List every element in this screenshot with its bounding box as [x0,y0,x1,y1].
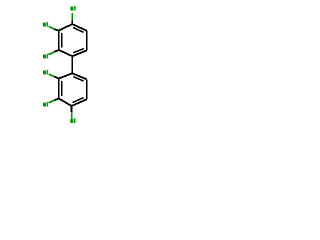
Cl label C [43,54,48,59]
bond W2-ClD black half [54,77,58,79]
Cl label D [43,70,48,75]
double bond V4-V5 [72,49,86,57]
bond W4-ClF green half [71,112,73,119]
double bond W6-W1 [72,73,86,81]
bond W3-ClE black half [54,98,58,100]
bond W3-W4 [59,98,72,106]
double bond W2-W3 [59,79,62,99]
bond V5-V6 [86,31,88,51]
Cl label E [43,102,48,107]
bond V3-V4 [59,50,73,56]
bond W1-W2 [59,73,73,78]
Cl label B [43,22,48,27]
bond V3-ClC black half [54,50,58,52]
bond V1-V2 [59,24,73,30]
bond W4-ClF black half [71,106,73,112]
biphenyl single bond C1-C1p [71,56,73,73]
bond W3-ClE green half [49,100,55,102]
double bond W4-W5 [72,98,87,106]
bond W5-W6 [86,79,88,99]
Cl label A [70,6,75,11]
bond V2-ClB green half [49,26,55,29]
double bond V2-V3 [59,31,62,50]
bond V1-ClA green half [71,13,73,20]
bond V2-ClB black half [54,29,58,30]
Cl label F [70,118,75,123]
bond V1-ClA black half [71,20,73,24]
double bond V6-V1 [72,24,86,32]
bond W2-ClD green half [49,74,55,76]
bond V3-ClC green half [49,52,55,55]
